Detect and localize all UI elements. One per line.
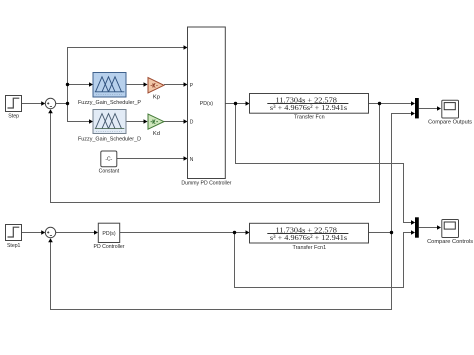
svg-text:PD Controller: PD Controller: [94, 244, 125, 250]
svg-text:Kp: Kp: [153, 94, 160, 100]
svg-text:Dummy PD Controller: Dummy PD Controller: [181, 181, 231, 187]
svg-text:Compare Outputs: Compare Outputs: [428, 120, 472, 126]
svg-text:Step: Step: [8, 114, 19, 120]
svg-text:Compare Controls: Compare Controls: [427, 239, 473, 245]
svg-text:N: N: [190, 157, 194, 163]
svg-text:Kd: Kd: [153, 131, 160, 137]
svg-text:Constant: Constant: [99, 169, 120, 175]
svg-text:Fuzzy_Gain_Scheduler_D: Fuzzy_Gain_Scheduler_D: [78, 137, 141, 143]
svg-text:D: D: [190, 119, 194, 125]
svg-text:-C-: -C-: [105, 157, 112, 163]
svg-text:PD(s): PD(s): [102, 231, 116, 237]
svg-text:s³ + 4.9676s² + 12.941s: s³ + 4.9676s² + 12.941s: [270, 233, 347, 242]
svg-text:Fuzzy_Gain_Scheduler_P: Fuzzy_Gain_Scheduler_P: [78, 100, 141, 106]
svg-text:Step1: Step1: [7, 243, 21, 249]
svg-text:s³ + 4.9676s² + 12.941s: s³ + 4.9676s² + 12.941s: [270, 103, 347, 112]
svg-text:Transfer Fcn1: Transfer Fcn1: [293, 245, 327, 251]
svg-text:PD(s): PD(s): [200, 101, 214, 107]
svg-text:Transfer Fcn: Transfer Fcn: [294, 115, 325, 121]
